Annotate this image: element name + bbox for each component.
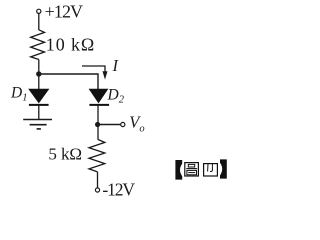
- wire top supply to resistor: [38, 14, 40, 30]
- resistor R1 10 kΩ: [31, 30, 45, 60]
- terminal +12V: [37, 9, 41, 13]
- node Vo junction: [95, 122, 100, 127]
- figure caption 【圖四】 (drawn glyphs): [175, 159, 226, 179]
- wire node to Vo terminal: [98, 124, 121, 126]
- svg-text:-12V: -12V: [102, 180, 135, 200]
- caption bracket right 】: [220, 159, 227, 178]
- svg-text:D1: D1: [10, 84, 27, 103]
- diode D2: [89, 89, 110, 105]
- wire diode D2 to node Vo: [97, 105, 99, 140]
- svg-text:10 kΩ: 10 kΩ: [46, 35, 95, 55]
- svg-text:D2: D2: [107, 86, 125, 105]
- svg-text:+12V: +12V: [45, 2, 83, 22]
- wire resistor to -12V terminal: [97, 172, 99, 188]
- caption glyph 四: [204, 164, 218, 176]
- current arrow I: [82, 66, 108, 80]
- svg-text:I: I: [112, 56, 120, 75]
- wire node to right branch: [39, 74, 98, 89]
- caption bracket left 【: [175, 160, 182, 180]
- svg-text:Vo: Vo: [129, 112, 144, 134]
- terminal Vo: [121, 122, 125, 126]
- svg-text:5 kΩ: 5 kΩ: [48, 145, 81, 164]
- node junction: [36, 71, 41, 76]
- wire diode D1 to ground: [38, 105, 40, 120]
- wire resistor to node: [38, 60, 40, 90]
- terminal -12V: [95, 188, 99, 192]
- ground: [23, 120, 52, 129]
- caption glyph 圖: [185, 163, 199, 176]
- diode D1: [28, 89, 49, 105]
- resistor R2 5 kΩ: [89, 140, 105, 172]
